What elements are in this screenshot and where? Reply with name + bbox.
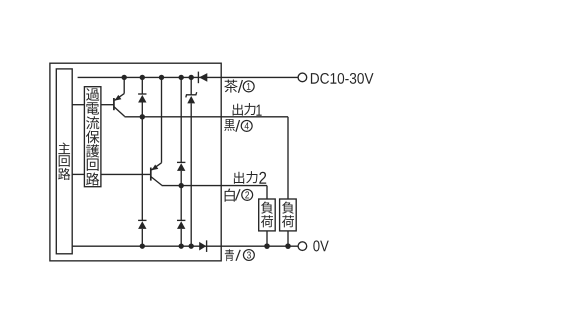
label 茶/1 brown wire	[224, 80, 254, 93]
wire load2 bottom to 0V	[266, 231, 268, 246]
node 0V junction D4	[179, 243, 184, 248]
wire Q2 base	[101, 173, 151, 175]
wire 主回路 to protection box (upper)	[72, 104, 84, 106]
node top rail junction B	[140, 75, 145, 80]
diode D3 clamp output1 to 0V	[138, 117, 146, 246]
label 白/2 white wire	[225, 189, 253, 202]
node top rail junction D	[179, 75, 184, 80]
label 出力1	[233, 103, 262, 116]
wire load1 bottom to 0V	[287, 231, 289, 246]
node top rail junction A	[122, 75, 127, 80]
node output2 junction with D2/D4	[179, 183, 184, 188]
diode D4 clamp output2 to 0V	[177, 186, 185, 247]
overcurrent protection block 過電流保護回路	[84, 87, 101, 187]
wire +V top rail	[78, 76, 299, 78]
wire output1 (collector Q1 to load, exits as 黒/4)	[125, 117, 289, 199]
terminal 0V	[298, 242, 307, 251]
label 青/3 blue wire	[225, 249, 255, 261]
label 0V	[313, 240, 328, 251]
label DC10-30V	[311, 73, 374, 84]
terminal +V DC10-30V	[298, 73, 307, 82]
node 0V junction load2	[264, 243, 270, 249]
node 0V junction ZD1	[189, 243, 194, 248]
sensor outline box	[50, 63, 221, 261]
zener diode ZD1 surge absorber across supply	[186, 77, 197, 246]
node output1 junction with D1/D3	[140, 114, 145, 119]
wire 0V bottom rail	[72, 245, 298, 247]
load box 負荷 (output2)	[259, 199, 276, 231]
node top rail junction C	[159, 75, 164, 80]
label 出力2	[234, 171, 266, 184]
wire Q1 base	[101, 104, 114, 106]
diode D1 flyback output1 to +V	[138, 77, 146, 116]
transistor Q1 (PNP, output 1)	[114, 77, 125, 116]
load box 負荷 (output1)	[280, 199, 297, 231]
node 0V junction D3	[140, 243, 145, 248]
node 0V junction load1	[285, 243, 291, 249]
diode D5 reverse-protection on 0V rail	[199, 240, 206, 252]
main circuit block 主回路	[56, 69, 72, 254]
wire 主回路 to protection box (lower)	[72, 173, 84, 175]
node top rail junction E	[189, 75, 194, 80]
label 黒/4 black wire	[224, 119, 252, 132]
diode D2 flyback output2 to +V	[177, 77, 185, 185]
diode D6 reverse-protection on +V rail	[198, 72, 207, 84]
wire output2 (collector Q2 to load, exits as 白/2)	[162, 186, 267, 199]
transistor Q2 (PNP, output 2)	[151, 77, 162, 185]
